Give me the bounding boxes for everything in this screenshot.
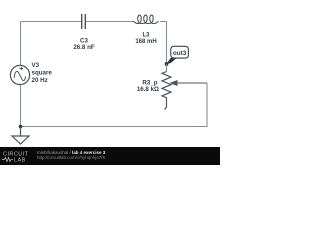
potentiometer R3_p: [137, 72, 171, 110]
wire source bottom: [20, 85, 22, 127]
voltage source V3: [10, 62, 52, 85]
inductor L3: [134, 15, 159, 45]
credit text: [37, 150, 105, 161]
wire top-left horizontal: [21, 21, 82, 23]
circuitlab logo: [0, 147, 36, 165]
svg-text:V3: V3: [32, 62, 40, 69]
svg-text:20 Hz: 20 Hz: [32, 77, 48, 84]
svg-text:square: square: [32, 70, 53, 77]
wire inductor to right corner and down: [160, 22, 166, 65]
svg-text:LAB: LAB: [14, 158, 26, 164]
wire source top: [20, 22, 22, 66]
junction dot: [19, 125, 23, 129]
flag out3: [167, 46, 189, 64]
svg-text:168 mH: 168 mH: [135, 39, 156, 45]
svg-text:L3: L3: [142, 32, 150, 38]
wire cap to inductor: [86, 21, 134, 23]
wire node to resistor: [166, 64, 168, 72]
svg-text:16.8 kΩ: 16.8 kΩ: [137, 86, 159, 93]
svg-text:out3: out3: [173, 50, 187, 57]
node out3 dot: [165, 62, 168, 65]
capacitor C3: [73, 14, 95, 51]
wiper arrow: [170, 80, 208, 86]
wire wiper to bottom: [21, 83, 208, 127]
ground: [12, 127, 29, 145]
footer bar: [0, 147, 220, 165]
svg-text:26.8 nF: 26.8 nF: [73, 44, 95, 51]
